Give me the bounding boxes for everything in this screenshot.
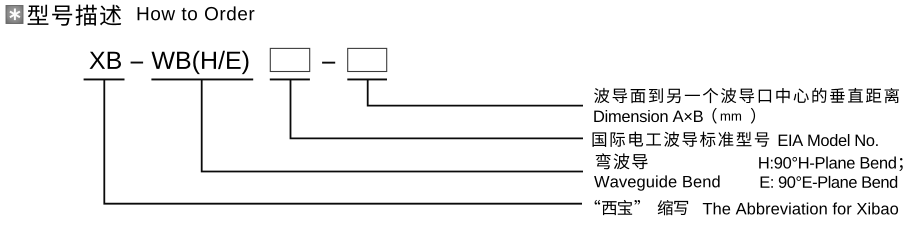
wire from WB(H/E) to waveguide-bend note bbox=[202, 80, 583, 172]
wire from box 2 to dimension note bbox=[368, 80, 583, 106]
note: Waveguide Bend bbox=[594, 175, 720, 190]
note: EIA standard model (Chinese) bbox=[593, 132, 770, 147]
header subtitle How to Order bbox=[138, 6, 255, 20]
underline under box 2 bbox=[347, 79, 387, 81]
note: abbreviation for Xibao (Chinese) bbox=[595, 200, 689, 215]
note: dimension description (Chinese) bbox=[594, 88, 899, 103]
note: H-plane bend bbox=[759, 157, 903, 172]
dash between boxes bbox=[322, 62, 335, 64]
model code WB(H/E) bbox=[152, 51, 249, 74]
dash between XB and WB(H/E) bbox=[131, 62, 144, 64]
note: The Abbreviation for Xibao bbox=[703, 202, 898, 214]
blank box 2 (dimension) bbox=[348, 48, 387, 71]
blank box 1 (EIA model number) bbox=[270, 48, 309, 71]
underline under XB bbox=[84, 79, 125, 81]
model code prefix XB bbox=[90, 52, 121, 69]
header bullet icon (gray square with white asterisk) bbox=[6, 6, 23, 24]
wire from XB to abbreviation note bbox=[104, 80, 582, 204]
note: EIA Model No. bbox=[779, 134, 878, 146]
note: E-plane bend bbox=[761, 176, 898, 188]
note: waveguide bend (Chinese) bbox=[596, 153, 648, 169]
note: Dimension AxB (mm) bbox=[594, 108, 755, 124]
underline under WB(H/E) bbox=[151, 79, 253, 81]
underline under box 1 bbox=[270, 79, 310, 81]
wire from box 1 to EIA note bbox=[291, 80, 584, 139]
header title 型号描述 bbox=[28, 5, 122, 26]
